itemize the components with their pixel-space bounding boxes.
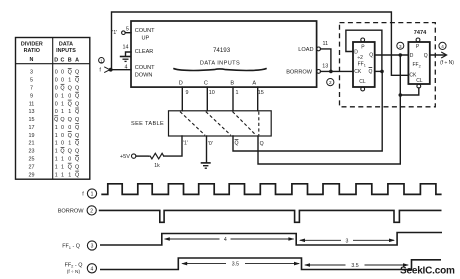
svg-text:3: 3: [399, 44, 402, 49]
svg-text:C: C: [204, 80, 208, 86]
svg-text:'1': '1': [183, 141, 188, 147]
wire resistor to +5V terminal: [136, 155, 148, 157]
wire data pin D (9): [181, 87, 183, 111]
svg-text:CK: CK: [354, 69, 362, 75]
svg-text:0: 0: [68, 93, 71, 99]
svg-text:FF1 - Q: FF1 - Q: [62, 244, 80, 250]
svg-text:1: 1: [61, 157, 64, 163]
svg-text:Q: Q: [68, 86, 72, 92]
svg-text:DATA: DATA: [59, 41, 73, 47]
svg-text:CLEAR: CLEAR: [135, 49, 154, 55]
waveform FF2 Q: [100, 258, 441, 270]
f input arrow: [104, 67, 110, 73]
svg-text:29: 29: [29, 172, 35, 178]
svg-text:'1': '1': [112, 30, 117, 36]
svg-text:1: 1: [61, 93, 64, 99]
svg-text:1: 1: [61, 101, 64, 107]
svg-text:Q: Q: [60, 86, 64, 92]
svg-text:Q: Q: [75, 101, 79, 107]
svg-text:÷2: ÷2: [357, 55, 363, 61]
svg-text:(f ÷ N): (f ÷ N): [440, 60, 454, 66]
svg-text:D: D: [410, 53, 414, 59]
wire Qbar stub to FF1 Qbar output: [233, 71, 382, 151]
svg-text:BORROW: BORROW: [286, 69, 313, 75]
svg-text:B: B: [68, 57, 72, 63]
svg-text:LOAD: LOAD: [298, 47, 313, 53]
svg-text:Q: Q: [75, 125, 79, 131]
svg-text:11: 11: [29, 101, 35, 107]
svg-text:9: 9: [186, 90, 189, 96]
svg-text:1: 1: [55, 141, 58, 147]
wire f to COUNT DOWN pin 4: [110, 69, 131, 71]
svg-text:3: 3: [91, 244, 94, 250]
svg-text:1: 1: [55, 164, 58, 170]
junction dot on Q wire: [399, 53, 403, 57]
svg-text:SEE TABLE: SEE TABLE: [131, 121, 164, 127]
see-table mapping box: [169, 111, 272, 136]
waveform FF1 Q: [100, 233, 442, 246]
wire f up over top to FF2 clock: [112, 12, 409, 75]
svg-text:10: 10: [209, 90, 215, 96]
svg-text:74193: 74193: [213, 47, 231, 54]
svg-text:FF1: FF1: [358, 61, 366, 67]
wire '0' stub to ground: [206, 136, 208, 163]
svg-text:DIVIDER: DIVIDER: [21, 41, 43, 47]
svg-text:0: 0: [61, 141, 64, 147]
svg-text:DATA INPUTS: DATA INPUTS: [200, 60, 240, 66]
FF2 labels: [409, 44, 427, 84]
svg-text:CL: CL: [359, 79, 366, 85]
svg-text:Q: Q: [75, 172, 79, 178]
svg-text:INPUTS: INPUTS: [56, 48, 76, 54]
svg-text:4: 4: [441, 44, 444, 49]
wire Q stub to FF1 Q output: [258, 95, 400, 164]
svg-text:Q: Q: [54, 117, 58, 123]
svg-text:Q: Q: [75, 117, 79, 123]
svg-text:1: 1: [68, 172, 71, 178]
svg-text:3.5: 3.5: [351, 263, 358, 269]
svg-text:COUNT: COUNT: [135, 28, 155, 34]
svg-text:BORROW: BORROW: [58, 209, 85, 215]
svg-text:'0': '0': [208, 141, 213, 147]
svg-text:17: 17: [29, 125, 35, 131]
svg-text:1k: 1k: [154, 163, 160, 169]
wire BORROW to FF1 clock: [321, 70, 354, 72]
wire data pin B (1): [232, 87, 234, 111]
wire '1' terminal to COUNT UP pin 5: [125, 32, 131, 34]
dashed mapping diagonal from C: [206, 112, 231, 136]
svg-text:FF2 - Q: FF2 - Q: [65, 262, 83, 268]
svg-text:1: 1: [91, 192, 94, 198]
svg-text:Q: Q: [68, 149, 72, 155]
FF2 clear bubble: [417, 84, 421, 88]
svg-text:1: 1: [55, 125, 58, 131]
svg-text:15: 15: [29, 117, 35, 123]
svg-text:Q: Q: [75, 149, 79, 155]
svg-text:Q: Q: [75, 78, 79, 84]
svg-text:Q: Q: [60, 117, 64, 123]
svg-text:1: 1: [236, 90, 239, 96]
svg-text:4: 4: [224, 237, 227, 243]
svg-text:CL: CL: [416, 78, 423, 84]
svg-text:D: D: [54, 57, 58, 63]
node 2 circled: [327, 79, 334, 86]
svg-text:N: N: [30, 57, 34, 63]
svg-text:1: 1: [55, 133, 58, 139]
dashed mapping vertical from A: [258, 112, 260, 136]
svg-text:Q: Q: [75, 109, 79, 115]
svg-text:0: 0: [61, 70, 64, 76]
svg-text:0: 0: [68, 125, 71, 131]
svg-text:Q: Q: [75, 86, 79, 92]
dashed enclosure around 7474 flip-flops: [340, 23, 436, 107]
waveform borrow pulses: [99, 210, 442, 222]
svg-text:5: 5: [30, 78, 33, 84]
svg-text:Q: Q: [234, 141, 238, 147]
resistor R1 1k zigzag: [148, 153, 164, 159]
svg-text:15: 15: [258, 90, 264, 96]
svg-text:27: 27: [29, 164, 35, 170]
svg-text:1: 1: [55, 157, 58, 163]
svg-text:f: f: [99, 67, 101, 73]
+5V supply terminal: [132, 154, 136, 158]
junction dot borrow-load tie: [329, 70, 333, 74]
wire data pin A (15): [257, 87, 259, 111]
node 1 circled: [99, 58, 105, 64]
svg-text:3: 3: [30, 70, 33, 76]
svg-text:2: 2: [90, 209, 93, 215]
svg-text:Q: Q: [75, 157, 79, 163]
svg-text:1: 1: [61, 109, 64, 115]
dimension arrow 3 counts: [300, 239, 394, 241]
underbrace below DATA INPUTS: [173, 68, 266, 70]
svg-text:D: D: [179, 80, 183, 86]
svg-text:0: 0: [55, 109, 58, 115]
svg-text:3: 3: [346, 238, 349, 244]
wire Q down to FF2 clear: [400, 55, 419, 95]
svg-text:5: 5: [126, 27, 129, 33]
svg-text:11: 11: [322, 41, 328, 47]
svg-text:(f ÷ N): (f ÷ N): [67, 269, 81, 275]
svg-text:Q: Q: [75, 93, 79, 99]
svg-text:1: 1: [55, 149, 58, 155]
svg-text:1: 1: [68, 109, 71, 115]
svg-text:0: 0: [61, 78, 64, 84]
svg-text:C: C: [61, 57, 65, 63]
svg-text:19: 19: [29, 133, 35, 139]
svg-text:1: 1: [68, 78, 71, 84]
dimension arrow 3.5 first: [182, 263, 299, 265]
svg-text:0: 0: [61, 133, 64, 139]
flip-flop FF2 body: [408, 42, 429, 84]
svg-text:SeekIC.com: SeekIC.com: [400, 265, 455, 276]
svg-text:Q: Q: [260, 141, 264, 147]
wire FF1 Qbar out: [375, 70, 383, 72]
wire FF1 Q to FF2 D: [375, 54, 409, 56]
wire '1' stub to resistor: [164, 136, 182, 156]
svg-text:RATIO: RATIO: [24, 48, 40, 54]
dimension arrow 4 counts: [165, 238, 294, 240]
svg-text:Q: Q: [68, 101, 72, 107]
svg-text:FF2: FF2: [413, 62, 421, 68]
svg-text:A: A: [252, 80, 256, 86]
flip-flop FF1 body: [353, 42, 375, 87]
svg-text:Q: Q: [75, 141, 79, 147]
svg-text:13: 13: [29, 109, 35, 115]
wire FF1 feedback D loop from Qbar: [346, 30, 382, 71]
svg-text:14: 14: [123, 45, 129, 51]
svg-text:9: 9: [30, 93, 33, 99]
svg-text:1: 1: [61, 164, 64, 170]
svg-text:+5V: +5V: [120, 154, 130, 160]
ground G2: [201, 163, 211, 168]
svg-text:Q: Q: [424, 53, 428, 59]
FF2 preset bubble: [416, 38, 420, 42]
node 4 circled: [439, 42, 446, 49]
FF1 preset bubble: [361, 38, 365, 42]
counter U1 74193 body: [131, 21, 317, 87]
svg-text:P: P: [416, 44, 420, 50]
FF1 clear bubble: [361, 87, 365, 91]
svg-text:21: 21: [29, 141, 35, 147]
svg-text:0: 0: [61, 125, 64, 131]
dashed mapping diagonal from B: [233, 112, 257, 136]
junction dot FF2 clear tie: [399, 93, 403, 97]
U1 internal labels: [135, 28, 314, 86]
svg-text:f: f: [82, 192, 84, 198]
svg-text:Q: Q: [68, 70, 72, 76]
table header text: [21, 41, 79, 63]
svg-text:0: 0: [55, 70, 58, 76]
svg-text:3.5: 3.5: [232, 262, 239, 268]
svg-text:Q: Q: [75, 70, 79, 76]
svg-text:Q: Q: [60, 149, 64, 155]
LOAD pin bubble: [317, 47, 321, 51]
node 3 circled: [397, 42, 404, 49]
svg-text:Q: Q: [368, 69, 372, 75]
svg-text:7: 7: [30, 86, 33, 92]
svg-text:23: 23: [29, 149, 35, 155]
svg-text:1: 1: [68, 141, 71, 147]
waveform f clock: [101, 184, 441, 195]
dimension arrow 3.5 second: [305, 264, 408, 266]
svg-text:7474: 7474: [414, 30, 427, 36]
svg-text:A: A: [75, 57, 79, 63]
wire LOAD tied down to BORROW: [321, 49, 331, 72]
svg-text:COUNT: COUNT: [135, 65, 155, 71]
svg-text:0: 0: [68, 157, 71, 163]
dashed mapping diagonal from D: [180, 112, 205, 136]
wire data pin C (10): [206, 87, 208, 111]
svg-text:13: 13: [322, 64, 328, 70]
wire FF2 Q output with arrow: [430, 54, 445, 56]
ground G1: [120, 57, 131, 62]
svg-text:0: 0: [55, 78, 58, 84]
svg-text:B: B: [230, 80, 234, 86]
BORROW pin bubble: [317, 70, 321, 74]
divider ratio table frame: [16, 38, 90, 180]
junction dot f node: [109, 68, 113, 72]
svg-text:Q: Q: [75, 164, 79, 170]
svg-text:DOWN: DOWN: [135, 73, 153, 79]
svg-text:0: 0: [55, 93, 58, 99]
svg-text:Q: Q: [68, 133, 72, 139]
svg-text:1: 1: [55, 172, 58, 178]
wire CLEAR pin 14 to ground: [126, 52, 132, 56]
FF1 labels: [354, 44, 373, 85]
svg-text:2: 2: [329, 80, 332, 85]
svg-text:UP: UP: [142, 36, 150, 42]
svg-text:0: 0: [55, 101, 58, 107]
svg-text:1: 1: [61, 172, 64, 178]
svg-text:Q: Q: [68, 117, 72, 123]
svg-text:0: 0: [55, 86, 58, 92]
svg-text:Q: Q: [68, 164, 72, 170]
junction dot FF1 Qbar: [380, 70, 384, 74]
svg-text:4: 4: [91, 266, 94, 272]
svg-text:25: 25: [29, 157, 35, 163]
svg-text:Q: Q: [75, 133, 79, 139]
svg-text:Q: Q: [369, 53, 373, 59]
svg-text:P: P: [361, 44, 365, 50]
